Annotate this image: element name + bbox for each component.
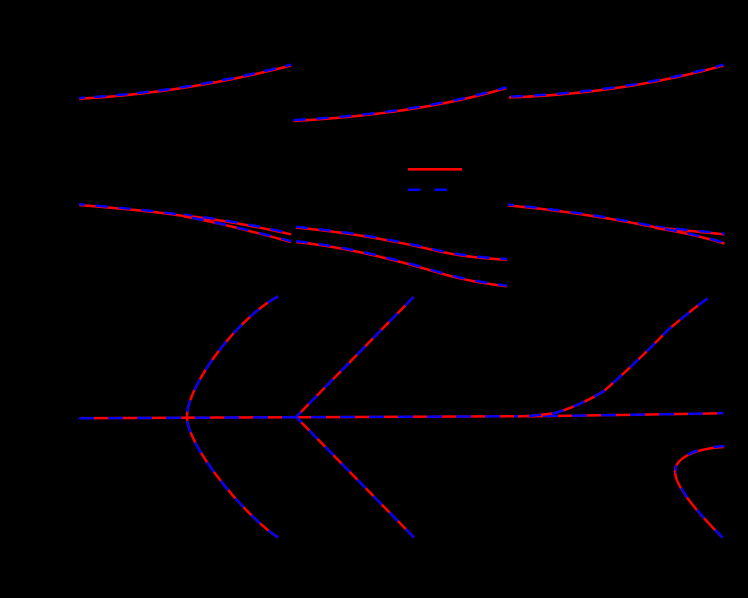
- curve T3 blue dashed overlay: [509, 65, 724, 97]
- curve B1 upper blue dashed: [187, 297, 278, 418]
- curve M1 lower branch red: [184, 217, 291, 243]
- curve B2 upper straight line red (branch at x=296): [297, 297, 414, 417]
- curve B1 lower blue dashed: [187, 418, 278, 538]
- curve M2 upper red (middle-center): [296, 228, 507, 260]
- curve M1 trunk blue dashed: [79, 204, 185, 215]
- curve B4 lower blue dashed: [676, 472, 723, 538]
- curve M1 upper branch red: [184, 216, 291, 235]
- curve B0 horizontal line blue dashed: [79, 413, 724, 418]
- curve T2 blue dashed overlay: [294, 87, 507, 120]
- curve T3 red solid (top-right rising segment): [509, 66, 724, 98]
- curve M3 lower branch red: [655, 228, 725, 244]
- curve M3 lower branch blue dashed: [655, 227, 725, 243]
- curve B2 upper blue dashed: [297, 297, 414, 417]
- curve B2 lower blue dashed: [297, 418, 415, 538]
- curve B2 lower straight line red: [297, 418, 415, 538]
- curve M3 trunk red (middle-right, single until x~665): [508, 205, 665, 229]
- curve B1 parabola red (branch at x=187): [187, 297, 278, 538]
- legend blue dashed line: [408, 188, 461, 191]
- curve M1 upper branch blue dashed: [184, 215, 291, 234]
- curve M3 upper branch blue dashed: [655, 227, 725, 234]
- curve B4 fold red (right-side arc, vertex x=675): [675, 447, 724, 537]
- curve M1 lower branch blue dashed: [184, 217, 291, 242]
- curve T1 blue dashed overlay: [79, 65, 291, 98]
- curve B0 horizontal line red (bottom panel baseline): [79, 413, 724, 418]
- curve M2 upper blue dashed: [296, 227, 507, 259]
- curve M2 lower blue dashed: [296, 241, 507, 285]
- curve M3 upper branch red: [655, 227, 725, 234]
- curve T2 red solid (top-middle rising segment): [294, 88, 507, 121]
- curve M1 trunk red (middle-left, single until x~185): [79, 205, 185, 216]
- curve M2 lower red: [296, 242, 507, 286]
- curve M3 trunk blue dashed: [508, 205, 665, 229]
- curve B3 blue dashed: [518, 299, 708, 417]
- curve T1 red solid (top-left rising segment): [79, 66, 291, 99]
- curve B4 upper blue dashed: [676, 446, 725, 471]
- curve B3 rising branch red (leaves baseline near x=540): [518, 299, 708, 417]
- legend red solid line: [408, 168, 462, 171]
